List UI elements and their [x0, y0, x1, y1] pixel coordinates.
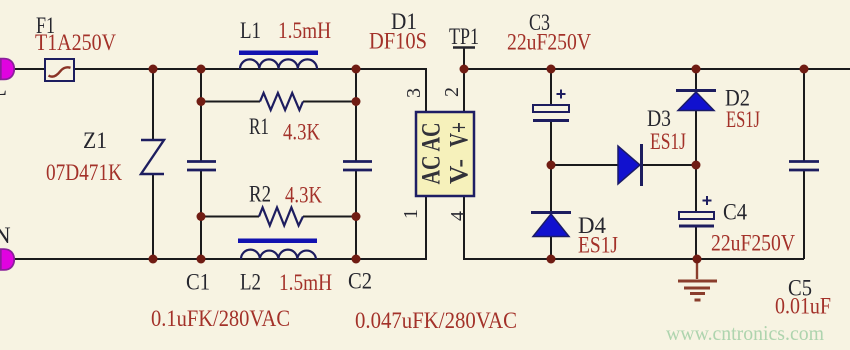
svg-text:L: L	[0, 75, 7, 100]
wire: L connector to fuse	[13, 68, 46, 70]
wire: C3 bottom lead to mid node	[550, 122, 552, 165]
svg-text:0.047uFK/280VAC: 0.047uFK/280VAC	[355, 308, 517, 333]
node: R1 left	[197, 97, 206, 106]
svg-text:07D471K: 07D471K	[46, 160, 122, 185]
svg-text:D3: D3	[647, 106, 671, 131]
ground bar 4	[695, 299, 701, 302]
connector N (AC neutral input)	[1, 249, 14, 270]
svg-text:R1: R1	[249, 114, 269, 139]
svg-text:1.5mH: 1.5mH	[279, 270, 332, 295]
node TP1 junction	[460, 65, 469, 74]
svg-text:0.1uFK/280VAC: 0.1uFK/280VAC	[151, 306, 290, 331]
ground bar 2	[684, 287, 710, 290]
wire: D4 bottom lead	[550, 236, 552, 259]
diode D2 cathode bar	[676, 89, 716, 92]
svg-text:22uF250V: 22uF250V	[507, 30, 591, 55]
capacitor C4 positive plate	[679, 212, 714, 219]
diode D2 body	[678, 92, 714, 111]
wire: C3 top lead	[550, 69, 552, 105]
inductor L2 windings	[241, 250, 316, 259]
svg-text:V+: V+	[445, 122, 474, 147]
svg-text:AC AC: AC AC	[417, 123, 446, 185]
ground bar 1	[678, 280, 717, 283]
node: R1 right	[352, 97, 361, 106]
node: V- wire / ground	[693, 255, 702, 264]
connector L (AC live input)	[1, 59, 14, 80]
svg-text:V-: V-	[445, 159, 474, 184]
fuse F1 body	[45, 59, 74, 81]
bridge rectifier D1 body	[416, 112, 474, 196]
svg-text:1: 1	[400, 209, 422, 219]
wire: D2 top lead	[695, 69, 697, 90]
diode D3 body	[618, 146, 640, 184]
inductor L1 windings	[240, 59, 317, 69]
node: top wire / C2 rail	[352, 65, 361, 74]
wire: Z1 bottom lead	[152, 174, 154, 259]
capacitor C3 positive plate	[533, 105, 569, 112]
inductor L2 core bar	[238, 239, 317, 244]
node: V- wire / D4	[547, 255, 556, 264]
wire: C2 rail top	[355, 69, 357, 161]
svg-text:Z1: Z1	[83, 128, 107, 153]
diode D3 cathode bar	[640, 144, 643, 186]
svg-text:R2: R2	[249, 182, 271, 207]
resistor R1	[260, 93, 303, 110]
wire: R2 left lead	[201, 216, 259, 218]
capacitor C2	[343, 162, 372, 171]
capacitor C4 (electrolytic) plus sign	[703, 196, 712, 205]
node: top wire / Z1	[149, 65, 158, 74]
svg-text:DF10S: DF10S	[369, 29, 427, 54]
svg-text:ES1J: ES1J	[726, 107, 760, 132]
resistor R2	[259, 208, 303, 226]
svg-text:N: N	[0, 223, 11, 248]
wire: top V+ line from TP1 to right edge	[464, 68, 850, 70]
node: top wire / C5 rail	[800, 65, 809, 74]
node: bottom wire / Z1	[149, 255, 158, 264]
node: R2 right	[352, 212, 361, 221]
node: R2 left	[197, 212, 206, 221]
node: bottom wire / C2 rail	[352, 255, 361, 264]
varistor Z1	[141, 140, 164, 174]
svg-text:ES1J: ES1J	[650, 129, 686, 154]
node: top wire / D2	[692, 65, 701, 74]
wire: D4 top lead	[550, 165, 552, 212]
wire: R1 right lead	[303, 101, 356, 103]
node: top wire / C3	[547, 65, 556, 74]
wire: Z1 top lead	[152, 69, 154, 140]
svg-text:4.3K: 4.3K	[285, 183, 322, 208]
wire: C4 top lead	[695, 165, 697, 212]
capacitor C5	[789, 162, 819, 171]
svg-text:L2: L2	[240, 270, 261, 295]
wire: bridge pin4 down and V- bottom line to C5 rail	[464, 196, 804, 259]
svg-text:C1: C1	[186, 270, 210, 295]
svg-text:T1A250V: T1A250V	[35, 30, 116, 55]
wire: mid line D3 anode side	[551, 164, 618, 166]
svg-text:4: 4	[447, 211, 469, 221]
wire: C5 rail bottom	[803, 170, 805, 259]
svg-text:0.01uF: 0.01uF	[775, 294, 831, 319]
test point TP1	[453, 46, 475, 49]
node: bottom wire / C1 rail	[197, 255, 206, 264]
wire: D2 bottom lead	[695, 110, 697, 165]
capacitor C3 (electrolytic) plus sign	[557, 90, 566, 99]
svg-text:3: 3	[403, 88, 425, 98]
wire: mid line D3 cathode side	[642, 164, 696, 166]
ground stem	[696, 259, 698, 279]
svg-text:C4: C4	[723, 200, 747, 225]
wire: C1 rail top	[200, 69, 202, 161]
wire: bottom AC neutral line from N connector to bridge pin1	[13, 196, 426, 259]
capacitor C3 negative plate	[533, 119, 569, 122]
node: mid wire / D2-D3-C4	[692, 161, 701, 170]
wire: C1 rail bottom	[200, 170, 202, 259]
fuse F1 element curve	[49, 67, 71, 76]
diode D4 body	[533, 214, 569, 237]
capacitor C4 negative plate	[679, 225, 714, 228]
svg-text:22uF250V: 22uF250V	[711, 231, 795, 256]
wire: top AC line from fuse to bridge pin3 corner	[74, 69, 426, 112]
svg-text:C2: C2	[348, 269, 372, 294]
svg-text:L1: L1	[240, 18, 261, 43]
inductor L1 core bar	[239, 51, 318, 56]
wire: R2 right lead	[303, 216, 356, 218]
wire: TP1 stub and bridge pin2	[463, 48, 465, 112]
wire: C5 rail top	[803, 69, 805, 161]
capacitor C1	[187, 162, 216, 171]
diode D4 cathode bar	[531, 211, 571, 214]
wire: R1 left lead	[201, 101, 260, 103]
node: top wire / C1 rail	[197, 65, 206, 74]
node: mid wire / C3-D4-D3	[547, 161, 556, 170]
wire: C4 bottom lead	[695, 227, 697, 259]
wire: C2 rail bottom	[355, 170, 357, 259]
svg-text:www.cntronics.com: www.cntronics.com	[666, 321, 824, 345]
svg-text:2: 2	[441, 87, 463, 97]
svg-text:ES1J: ES1J	[578, 233, 618, 258]
ground bar 3	[690, 292, 705, 295]
svg-text:1.5mH: 1.5mH	[278, 18, 331, 43]
svg-text:TP1: TP1	[449, 24, 479, 49]
svg-text:4.3K: 4.3K	[283, 120, 320, 145]
